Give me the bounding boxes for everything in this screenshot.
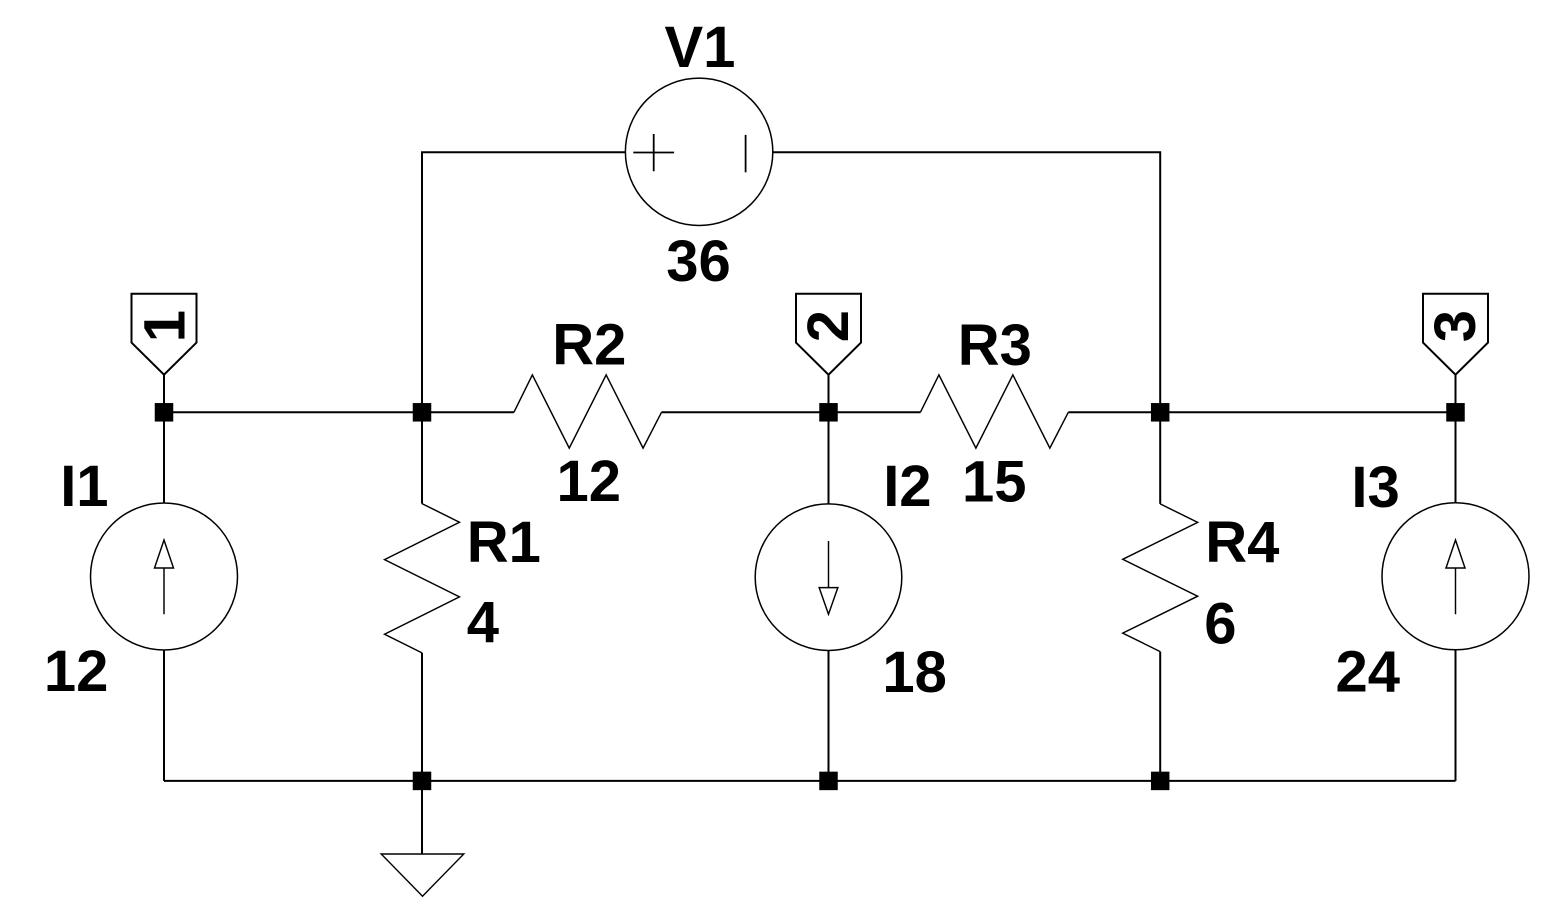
svg-text:6: 6 — [1204, 592, 1236, 657]
svg-text:36: 36 — [666, 229, 731, 294]
node flag 2 — [796, 294, 861, 375]
wire top rail left (node1 column top corner to V1 left terminal) — [422, 152, 625, 412]
V1 minus bar — [745, 135, 747, 172]
wire mid rail: R3 to node 3 — [1068, 411, 1455, 413]
wire flag 2 stub — [828, 375, 830, 413]
junction R4 bottom — [1151, 772, 1170, 791]
wire I2 down to bottom rail — [828, 651, 830, 781]
wire mid rail: R2 to R3 (through node 2) — [662, 411, 921, 413]
svg-text:18: 18 — [882, 640, 947, 705]
V1 plus sign — [633, 134, 674, 171]
junction node 3 — [1446, 403, 1465, 422]
svg-text:3: 3 — [1423, 310, 1488, 342]
wire I1 down to bottom rail — [163, 650, 165, 781]
current source I2 circle — [755, 504, 902, 651]
junction R1 bottom — [413, 772, 432, 791]
wire node3 column down to R4 — [1159, 412, 1161, 504]
svg-text:12: 12 — [44, 639, 109, 704]
wire R4 down to bottom rail — [1159, 652, 1161, 781]
svg-text:I2: I2 — [883, 454, 931, 519]
wire bottom rail — [164, 780, 1456, 782]
svg-text:R1: R1 — [467, 510, 541, 575]
svg-text:24: 24 — [1336, 639, 1401, 704]
junction I2 bottom — [819, 772, 838, 791]
svg-text:I1: I1 — [60, 454, 108, 519]
wire I3 down to bottom rail — [1455, 650, 1457, 781]
svg-text:R3: R3 — [958, 313, 1032, 378]
svg-text:1: 1 — [132, 310, 197, 342]
wire ground stub — [421, 781, 423, 854]
I2 arrow (down) — [819, 541, 838, 614]
ground — [381, 854, 464, 896]
svg-text:I3: I3 — [1351, 455, 1399, 520]
svg-text:R4: R4 — [1205, 510, 1279, 575]
svg-text:2: 2 — [796, 310, 861, 342]
junction node 1 — [155, 403, 174, 422]
I1 arrow (up) — [155, 540, 174, 614]
svg-text:12: 12 — [557, 449, 622, 514]
I3 arrow (up) — [1446, 540, 1465, 614]
current source I1 circle — [91, 503, 238, 650]
voltage source V1 circle — [625, 78, 772, 225]
node flag 1 — [132, 294, 197, 375]
resistor R3 — [920, 375, 1068, 448]
wire flag 3 stub — [1455, 375, 1457, 413]
junction R1 top — [413, 403, 432, 422]
wire R1 down to bottom rail — [421, 653, 423, 781]
svg-text:V1: V1 — [665, 15, 736, 80]
wire top rail right (V1 right terminal to right column corner) — [773, 152, 1160, 412]
resistor R1 — [385, 504, 460, 653]
junction R4 top — [1151, 403, 1170, 422]
current source I3 circle — [1382, 503, 1529, 650]
svg-text:4: 4 — [467, 590, 499, 655]
junction node 2 — [819, 403, 838, 422]
wire flag 1 stub — [163, 375, 165, 413]
wire mid rail: node1 to R2 — [164, 411, 514, 413]
wire node2 (R1 column) down to R1 — [421, 412, 423, 503]
wire node1 down to I1 — [163, 412, 165, 503]
svg-text:15: 15 — [962, 450, 1027, 515]
svg-text:R2: R2 — [552, 312, 626, 377]
wire node3 down to I3 — [1455, 412, 1457, 503]
node flag 3 — [1423, 294, 1488, 375]
resistor R2 — [514, 375, 662, 448]
resistor R4 — [1123, 504, 1198, 652]
wire node2 down to I2 — [828, 412, 830, 504]
